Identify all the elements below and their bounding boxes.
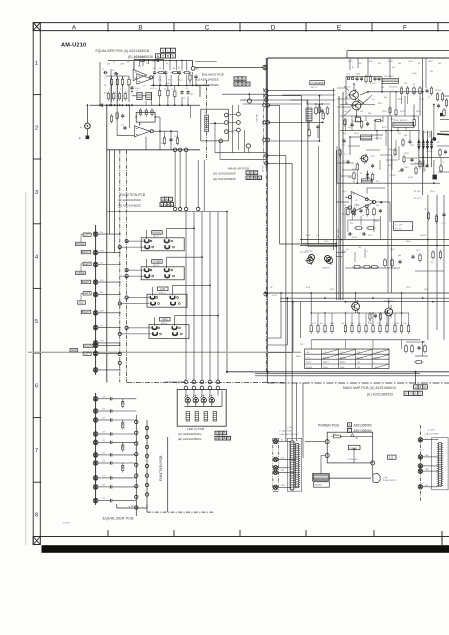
svg-text:U: U [415,385,417,389]
svg-text:1/2: 1/2 [355,200,358,202]
svg-text:B: B [415,392,417,396]
svg-text:B: B [168,203,170,207]
svg-text:V: V [251,176,253,180]
svg-text:R157: R157 [368,235,373,237]
svg-text:2.2: 2.2 [104,78,107,80]
svg-text:AX-L: AX-L [100,291,104,294]
svg-text:100: 100 [112,98,115,100]
svg-text:560: 560 [177,79,180,81]
svg-text:C118: C118 [404,167,408,169]
svg-text:WHT: WHT [425,455,429,457]
svg-text:100: 100 [341,323,344,325]
wire bus vert c4 [307,100,309,246]
svg-text:19-006: 19-006 [63,523,71,525]
svg-text:PR SW: PR SW [435,90,441,92]
svg-text:⚠ 120V 60Hz: ⚠ 120V 60Hz [279,430,292,433]
svg-text:A: A [72,24,77,31]
svg-text:2.2k: 2.2k [345,103,349,105]
svg-text:1k: 1k [155,88,157,90]
wire transformer links [321,456,373,479]
svg-text:E: E [247,176,249,180]
svg-text:GND: GND [296,356,301,358]
svg-text:220: 220 [376,181,379,183]
wire main bus vertical (preamp out) [265,58,267,168]
svg-text:E,V,B,S: E,V,B,S [306,367,313,369]
svg-text:C28: C28 [102,485,105,487]
wire main input bus horizontal [90,104,200,106]
svg-text:SW 1-1: SW 1-1 [153,236,159,238]
fuse F1 and power switch [325,432,375,465]
svg-text:R15: R15 [190,94,193,96]
svg-text:1000p: 1000p [388,149,393,151]
svg-text:R161: R161 [306,235,311,237]
svg-text:E: E [337,24,341,31]
svg-text:R165: R165 [390,249,395,251]
wire amp vert right [422,80,424,195]
svg-text:R128: R128 [404,153,409,155]
value labels amp upper [342,61,441,183]
svg-text:C/ 120V 60Hz: C/ 120V 60Hz [346,459,357,461]
boundary balance PCB chain right [206,80,208,160]
svg-text:C24: C24 [102,440,105,442]
svg-text:GND: GND [281,485,286,487]
label FUNCTION PCB ids [118,193,174,208]
svg-text:C143: C143 [324,241,329,243]
svg-text:2W: 2W [430,71,433,73]
svg-text:8: 8 [35,513,38,519]
svg-text:R201: R201 [348,61,353,63]
svg-text:33: 33 [360,173,362,175]
svg-text:R: R [127,92,129,94]
label power warnings [279,426,299,436]
bracket equalizer bottom [117,504,147,508]
svg-text:C: C [224,431,226,435]
svg-text:C147: C147 [406,287,411,289]
svg-text:FUNCTION PCB: FUNCTION PCB [159,455,163,481]
capacitor row equalizer inputs [98,396,136,502]
svg-text:C9: C9 [136,90,138,92]
svg-text:PHONO: PHONO [153,232,162,235]
plug AC mains [373,474,398,483]
svg-text:R145: R145 [395,323,399,325]
svg-text:TU-L: TU-L [100,262,104,264]
svg-text:2SC1815: 2SC1815 [389,86,397,88]
svg-text:C27: C27 [102,476,105,478]
svg-text:84/10W: 84/10W [340,357,346,359]
svg-text:47: 47 [428,97,430,99]
svg-text:B-35V: B-35V [408,177,414,179]
boundary main VR chain [265,168,267,372]
svg-text:BCT 356: BCT 356 [338,229,340,238]
wire amp inner left rail2 [342,92,344,300]
svg-text:C121: C121 [441,223,446,225]
svg-text:SW 1-3: SW 1-3 [159,292,165,294]
wire main amp top rail [267,57,449,59]
transistor Q108 power output [384,301,396,318]
svg-text:C15: C15 [121,125,124,127]
svg-text:220p: 220p [422,169,426,171]
svg-text:VR101: VR101 [390,175,396,177]
svg-text:C20: C20 [102,396,105,398]
svg-text:10k: 10k [348,127,351,129]
svg-text:100p: 100p [342,133,346,135]
svg-text:C135: C135 [374,221,379,223]
svg-text:x2: x2 [391,90,393,92]
label POWER PCB ids [318,423,372,433]
connector pins function left bus [98,233,128,370]
svg-text:(E) A2013A502E: (E) A2013A502E [196,83,219,87]
svg-text:C11: C11 [180,80,183,82]
svg-text:Q101: Q101 [346,87,351,89]
boundary function PCB chain line left 2 [126,150,128,383]
resistor emitter row [310,310,420,340]
transistor Q8 muting [325,256,331,262]
svg-text:R122: R122 [390,119,395,121]
svg-text:C19: C19 [174,136,177,138]
svg-text:U: U [216,431,218,435]
svg-text:R107-R113: R107-R113 [384,76,394,78]
svg-text:B2 -52V: B2 -52V [414,198,422,200]
connector pins on preamp bus [263,89,270,165]
svg-text:TONE VR: TONE VR [374,138,383,140]
svg-text:C22: C22 [102,418,105,420]
svg-text:(U) A2013A501E: (U) A2013A501E [196,78,219,82]
resistor mid couple cluster [368,312,382,323]
svg-text:6dB: 6dB [167,83,171,85]
svg-text:C101: C101 [346,74,350,76]
transistor Q107 power output [346,300,360,313]
svg-text:EQUALIZER PCB (U) A2013A501: EQUALIZER PCB (U) A2013A501B [96,49,150,53]
wire function box right lower [167,437,169,512]
wire speaker bus drop [415,372,417,384]
wire eq bottom chain [146,501,148,512]
svg-text:2.2: 2.2 [112,70,115,72]
svg-text:B+: B+ [352,67,355,69]
svg-text:SW 1-2: SW 1-2 [153,265,159,267]
svg-text:220: 220 [350,223,353,225]
wire amp inner left rail [338,96,340,300]
svg-text:TAPE: TAPE [162,318,168,321]
svg-text:V: V [220,436,222,440]
svg-text:7: 7 [35,448,38,454]
svg-text:47k: 47k [104,93,107,95]
wire VR outputs right [243,95,335,104]
wire main amp left edge [266,58,268,383]
svg-text:47: 47 [178,68,180,70]
svg-text:R11: R11 [168,80,171,82]
transistor Q104 predriver [322,256,333,269]
wire amp inner rail5 [318,146,320,244]
svg-text:R151: R151 [342,214,347,216]
svg-text:68k: 68k [345,97,348,99]
svg-text:0.1: 0.1 [359,323,361,325]
svg-text:22k: 22k [346,249,349,251]
svg-text:2SB 536(B)(P): 2SB 536(B)(P) [384,301,396,303]
wire function box left edge [106,105,108,382]
svg-text:PH-R: PH-R [100,250,105,252]
svg-text:C: C [172,49,174,53]
svg-text:A: A [349,423,351,427]
svg-text:C: C [205,24,210,31]
wire balance top segment [195,61,217,63]
svg-text:4.7k: 4.7k [372,83,376,85]
wire amp mid rails [300,150,449,340]
svg-text:B: B [255,176,257,180]
svg-text:R167: R167 [330,289,335,291]
jack J1 phono L [80,104,90,129]
svg-text:R137: R137 [416,250,421,252]
svg-text:R: R [115,92,117,94]
svg-text:(E) A2013A502C: (E) A2013A502C [118,204,142,208]
label EQUALIZER PCB bottom [103,516,135,520]
svg-text:3.3k: 3.3k [158,80,161,82]
jack column source inputs [93,225,98,375]
svg-text:(U) A2013A501F: (U) A2013A501F [213,172,236,176]
svg-text:S: S [259,176,261,180]
svg-text:1k: 1k [372,99,374,101]
svg-text:1k: 1k [418,63,420,65]
svg-text:SP OUT: SP OUT [263,163,265,172]
svg-text:2SC945: 2SC945 [305,251,312,253]
paper edge shadow [25,192,27,545]
svg-text:4558: 4558 [354,205,358,207]
svg-text:220: 220 [152,61,155,63]
svg-text:B1 52V: B1 52V [414,191,421,193]
svg-text:R207: R207 [428,61,433,63]
svg-text:LED (I) PCB: LED (I) PCB [187,427,204,431]
svg-text:S: S [247,82,249,86]
svg-text:TU-R: TU-R [100,280,105,282]
svg-text:220: 220 [377,323,380,325]
svg-text:E: E [216,436,218,440]
svg-text:AM-U210: AM-U210 [61,43,86,49]
resistor network right of table [405,341,428,363]
connector pins function top [107,211,228,213]
switch S3 AUX [147,287,187,307]
svg-text:R: R [120,89,122,91]
svg-text:E: E [235,82,237,86]
svg-text:LEFT: LEFT [84,292,90,295]
wire preamp bus taps [268,91,335,164]
svg-text:C13: C13 [185,88,188,90]
svg-text:IC1: IC1 [138,66,141,68]
svg-text:T3/3a: T3/3a [323,367,327,369]
svg-text:E: E [157,54,159,58]
boundary power chassis [273,438,279,491]
svg-text:4.7: 4.7 [171,89,173,91]
svg-text:R117: R117 [378,103,382,105]
svg-text:0.018: 0.018 [135,88,140,90]
wire out bus 1 [227,371,449,373]
svg-text:RIGHT: RIGHT [84,345,92,348]
svg-text:T3+2a: T3+2a [306,362,311,364]
svg-text:AC: AC [281,439,284,442]
op-amp IC102 driver stage [336,188,412,236]
svg-text:B: B [419,385,421,389]
svg-text:BAL: BAL [196,68,199,71]
wire amp dense verticals [337,83,435,184]
svg-text:68k: 68k [173,68,176,70]
svg-text:A201305050: A201305050 [354,423,372,427]
svg-text:7.43: 7.43 [357,362,360,364]
svg-text:1k: 1k [362,215,364,217]
svg-text:(U) A2013A501G: (U) A2013A501G [178,432,202,436]
svg-text:B: B [243,82,245,86]
svg-text:0.22: 0.22 [403,323,406,325]
label MAIN AMP PCB ids [343,385,427,397]
svg-text:C141: C141 [430,191,435,193]
svg-text:2 A: 2 A [357,351,360,354]
svg-text:B: 0.6V: B: 0.6V [395,228,402,230]
svg-text:Q: B594: Q: B594 [128,506,136,508]
label LED PCB ids [178,427,231,441]
transformer T1 power [312,474,329,488]
svg-text:C203: C203 [368,61,373,63]
svg-text:220: 220 [344,119,347,121]
svg-text:D103: D103 [414,163,419,165]
svg-text:FUNCTION PCB: FUNCTION PCB [120,193,145,197]
wire balance feed long [195,65,267,70]
svg-text:R143: R143 [368,323,372,325]
svg-text:84/12W: 84/12W [323,357,329,359]
svg-text:R7: R7 [166,63,168,65]
svg-text:C25: C25 [102,453,105,455]
svg-text:AUX: AUX [79,301,84,304]
op-amp IC1 equalizer [99,57,198,152]
svg-text:IC101 TA7317P: IC101 TA7317P [394,119,408,122]
svg-text:47k: 47k [360,111,363,113]
svg-text:10: 10 [344,205,346,207]
wire eq internal risers [111,60,194,149]
svg-text:S: S [228,436,230,440]
wire equalizer top rail [108,59,193,61]
wire name labels [100,232,105,343]
svg-text:C26: C26 [102,461,105,463]
svg-text:A: A [239,77,241,81]
wire top rail second [347,50,449,52]
svg-text:6.8k: 6.8k [388,165,392,167]
svg-text:C111: C111 [420,99,424,101]
svg-text:R135: R135 [424,209,429,211]
transistor Q101 input stage cluster [318,74,449,184]
svg-text:TUNER: TUNER [153,261,162,264]
wire bus vert c2 [291,163,293,441]
connector CN power strips [287,438,301,491]
wire eq left boundary [99,62,101,105]
svg-text:R1: R1 [104,85,106,87]
svg-text:TAPE: TAPE [71,349,77,352]
svg-text:TB1: TB1 [355,438,358,440]
svg-text:RIGHT: RIGHT [82,311,90,314]
svg-text:84/SPT: 84/SPT [323,362,329,364]
table output voltage chart [305,349,389,369]
svg-text:C29: C29 [102,498,105,500]
label FUNCTION PCB vertical [159,455,163,481]
svg-text:S: S [172,54,174,58]
label BALANCE PCB ids [196,72,251,87]
svg-text:1000: 1000 [356,74,360,76]
svg-text:R: R [443,162,445,164]
wire bus vert c0 [279,105,281,244]
svg-text:TP-R: TP-R [100,341,105,343]
wire bus vert c3 [301,96,303,244]
boundary function PCB chain line left [119,150,121,383]
switch S1 PHONO [141,231,184,251]
svg-text:4.7: 4.7 [344,154,347,156]
svg-text:15k: 15k [398,133,401,135]
svg-text:29/11W: 29/11W [374,357,380,359]
svg-text:4Ω: 4Ω [307,352,310,354]
svg-text:TP1: TP1 [300,344,303,346]
svg-text:100: 100 [438,63,441,65]
svg-text:MAIN AMP PCB (U) A2013A5010: MAIN AMP PCB (U) A2013A5010 [343,386,396,390]
svg-text:1S2076: 1S2076 [420,235,427,237]
wire eq to balance feed [151,84,210,86]
svg-text:47k: 47k [127,62,130,64]
svg-text:0.22: 0.22 [312,323,315,325]
svg-text:T3/4a: T3/4a [340,367,344,369]
svg-text:L: L [80,125,82,129]
wire amp vert 388 [387,116,389,293]
svg-text:A: A [220,431,222,435]
svg-text:TUNER: TUNER [76,272,85,275]
svg-text:6.8: 6.8 [153,68,156,70]
svg-text:R: R [109,89,111,91]
svg-text:A: A [166,197,168,201]
svg-text:X16: X16 [389,457,394,460]
svg-text:C5: C5 [143,86,145,88]
svg-text:PHONO: PHONO [76,243,85,246]
wire eq output risers [173,152,204,211]
svg-text:SP: SP [437,142,440,144]
svg-text:10k: 10k [398,255,401,257]
boundary VR dash near bus [262,88,264,163]
loudness switch network [306,81,330,138]
svg-text:RIGHT: RIGHT [82,281,90,284]
svg-text:TP-L: TP-L [100,325,104,327]
wire power links [278,439,296,488]
potentiometer VR balance [201,93,266,159]
transistor Q7 muting [305,251,315,261]
svg-text:⚠ AC OUTLET: ⚠ AC OUTLET [424,433,439,436]
svg-text:84/15W: 84/15W [357,357,363,359]
svg-text:POWER SUPPLY: POWER SUPPLY [383,480,398,482]
svg-text:AUX: AUX [160,288,165,291]
connector pin columns eq-function [135,415,149,516]
svg-text:V: V [162,54,164,58]
svg-text:E: E [405,392,407,396]
svg-text:C4: C4 [119,96,121,98]
svg-text:VOLUME: VOLUME [257,113,259,122]
svg-text:35V: 35V [392,67,396,69]
label sheet number [63,523,71,525]
svg-text:C108: C108 [382,111,387,113]
wire led feed vertical [226,212,228,372]
svg-text:(C) 4558DV: (C) 4558DV [135,57,146,59]
svg-text:D101: D101 [354,133,359,135]
svg-text:560: 560 [384,97,387,99]
svg-text:E: E [161,203,163,207]
svg-text:100: 100 [381,87,384,89]
svg-text:1k: 1k [413,84,415,86]
label MAIN VR PCB ids [213,166,262,181]
svg-text:D: D [271,24,276,31]
label boxes input names [70,233,93,356]
svg-text:C205: C205 [408,61,413,63]
svg-text:EQUALIZER PCB: EQUALIZER PCB [103,516,135,520]
wire output stage down-steps [267,292,300,352]
wire bus vert c1 [285,156,287,442]
